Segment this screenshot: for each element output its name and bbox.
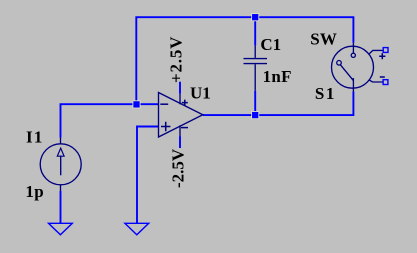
wire: input net from I1 corner to op-amp inverting input [61, 104, 159, 137]
wire: capacitor bottom lead wire [254, 91, 256, 112]
svg-text:1nF: 1nF [263, 67, 292, 86]
switch S1 pivot contact dot [337, 61, 342, 66]
switch S1 body circle [332, 46, 374, 88]
switch S1 minus control lead [369, 80, 383, 82]
capacitor C1 bottom lead [254, 64, 256, 91]
current source I1 arrow head [57, 148, 64, 156]
wire: +2.5V supply stub [179, 82, 181, 94]
op-amp top supply pin (navy part) [179, 94, 181, 105]
svg-text:U1: U1 [190, 83, 211, 102]
junction node at capacitor top [252, 14, 259, 21]
switch S1 top contact dot [351, 53, 355, 57]
switch S1 plus control mark [379, 53, 385, 59]
svg-text:-2.5V: -2.5V [169, 148, 188, 188]
op-amp U1 triangle [159, 93, 203, 138]
op-amp bottom supply minus mark [181, 127, 188, 129]
switch S1 plus control lead [369, 50, 383, 53]
ground under op-amp + input [125, 223, 149, 235]
current source I1 circle [40, 144, 81, 185]
junction node at inverting input [133, 101, 140, 108]
svg-text:+2.5V: +2.5V [166, 36, 185, 83]
current source I1 bottom lead [60, 185, 62, 191]
op-amp top supply plus mark [182, 100, 188, 106]
svg-text:I1: I1 [26, 128, 44, 147]
switch S1 plus terminal open square [383, 48, 388, 53]
wire: I1 bottom to ground [60, 191, 62, 223]
current source I1 arrow shaft [60, 156, 62, 176]
svg-text:S1: S1 [315, 84, 336, 103]
wire: feedback top loop from left junction up, across, down to switch [136, 17, 353, 104]
capacitor C1 top plate [244, 58, 268, 60]
op-amp non-inverting input plus mark [161, 122, 170, 131]
junction node at capacitor bottom / output [252, 112, 259, 119]
ground under I1 [49, 223, 73, 235]
wire: -2.5V supply stub [179, 136, 181, 148]
switch S1 minus terminal open square [383, 80, 388, 85]
wire: capacitor top lead wire [254, 19, 256, 45]
switch S1 bottom lead (navy) [352, 78, 354, 92]
switch S1 top lead (navy) [352, 43, 354, 54]
op-amp bottom supply pin (navy part) [179, 125, 181, 136]
svg-text:1p: 1p [25, 182, 44, 201]
capacitor C1 bottom plate [244, 63, 268, 65]
wire: op-amp non-inverting input to ground [137, 127, 159, 224]
op-amp inverting input minus mark [160, 103, 168, 105]
svg-text:SW: SW [310, 30, 337, 49]
wire: output net from op-amp apex to switch bottom [203, 92, 354, 116]
svg-text:C1: C1 [260, 35, 281, 54]
current source I1 top lead [60, 138, 62, 144]
switch S1 arm [340, 65, 353, 81]
capacitor C1 top lead [254, 45, 256, 58]
switch S1 minus control mark [380, 76, 385, 78]
